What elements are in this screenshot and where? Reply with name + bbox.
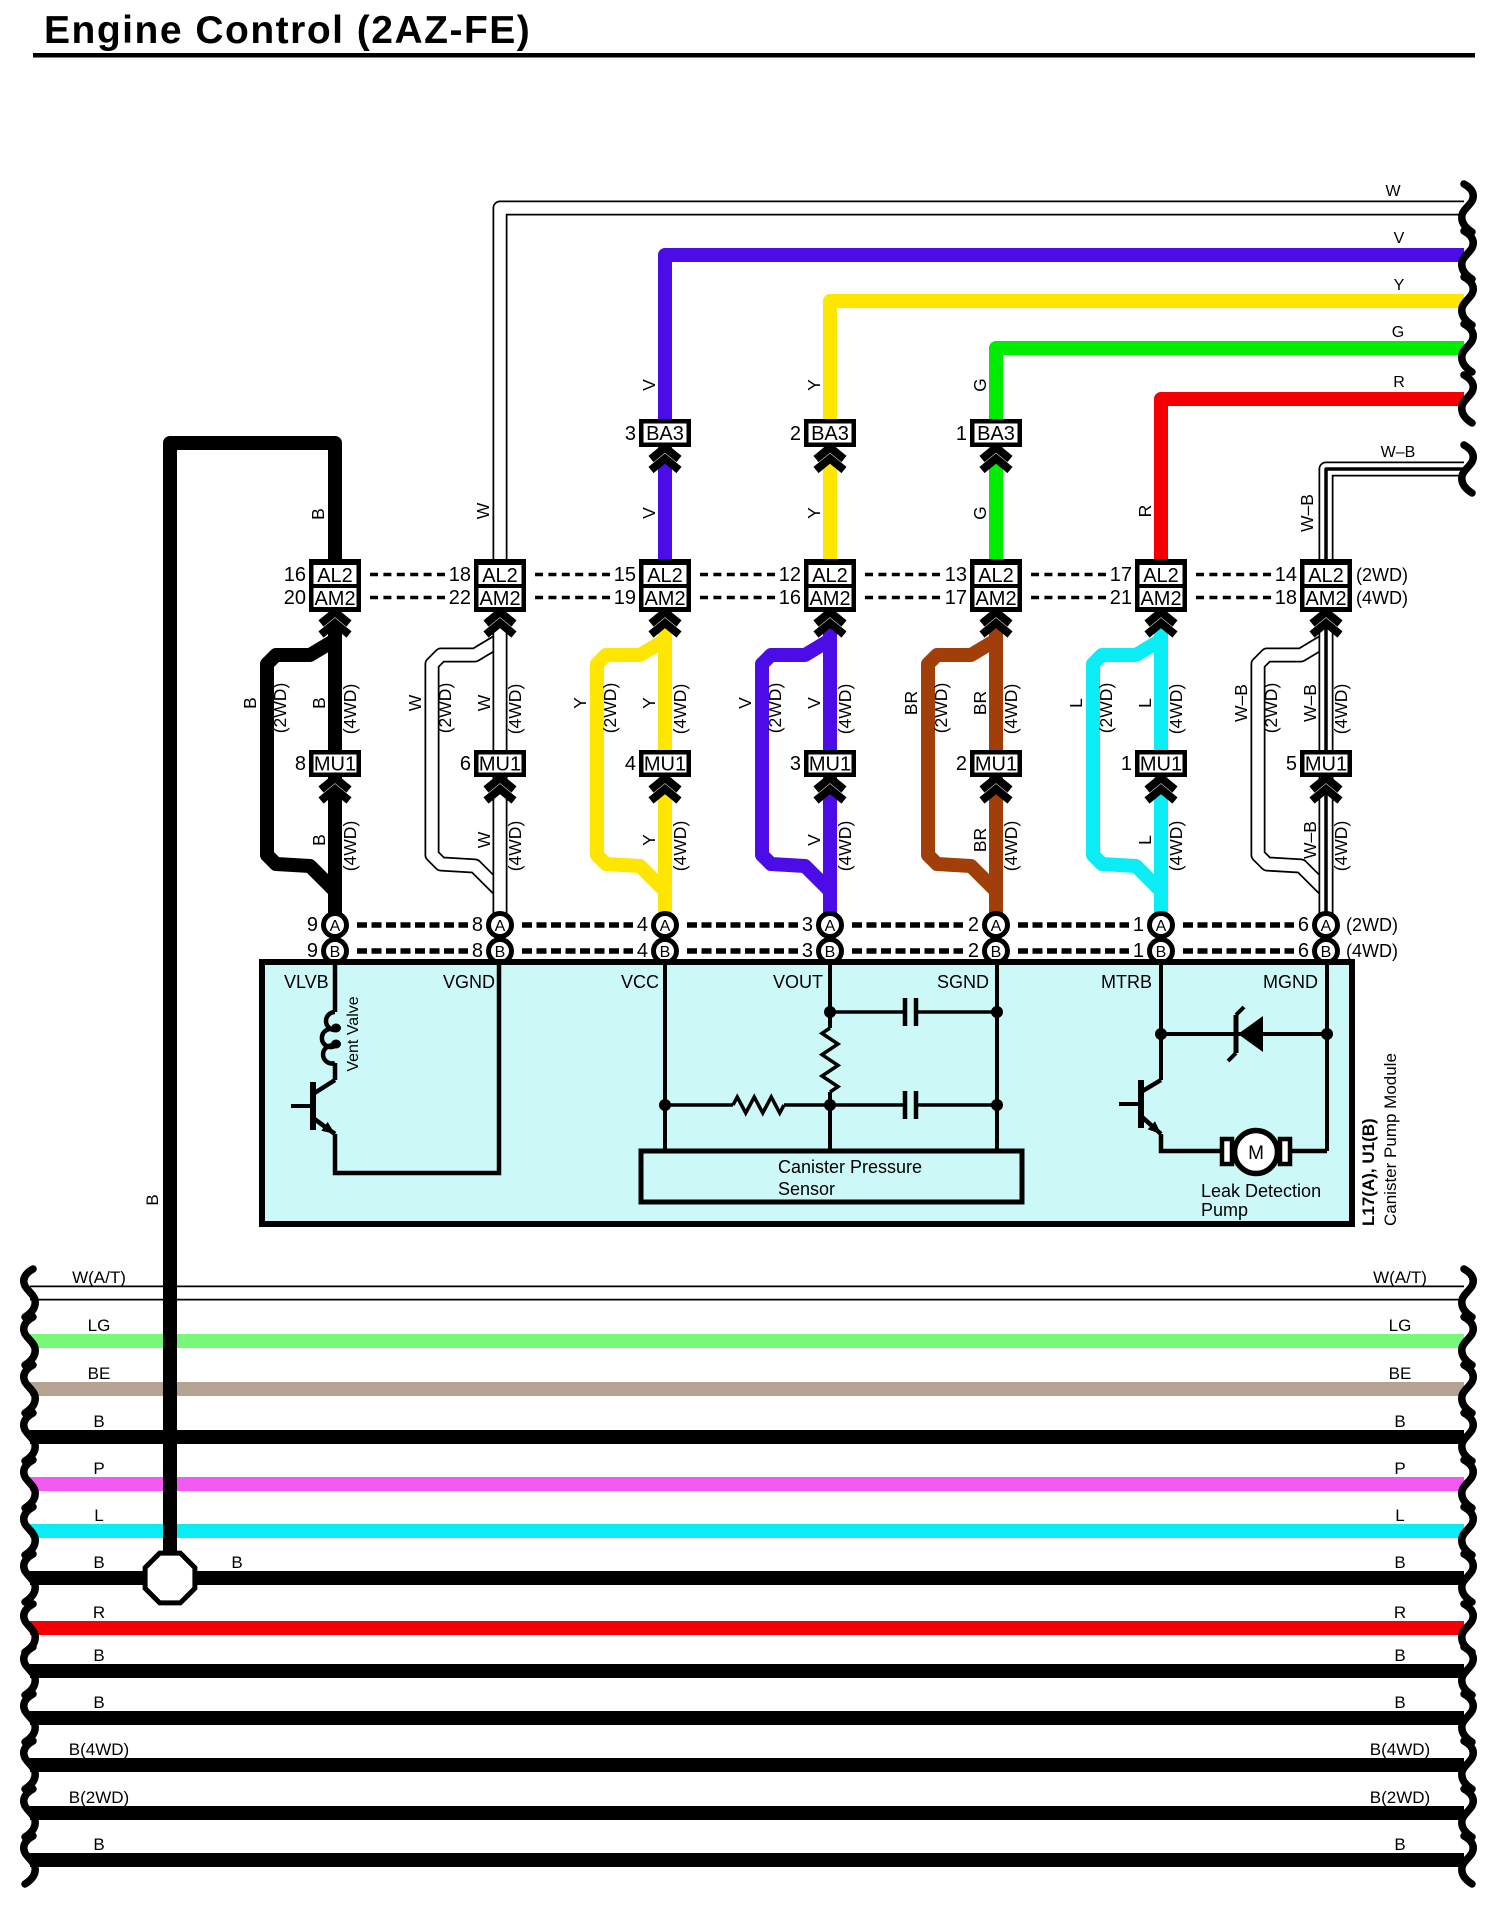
- svg-text:(4WD): (4WD): [1331, 821, 1351, 872]
- continuation P left: [24, 1460, 35, 1508]
- continuation BE left: [24, 1365, 35, 1413]
- label W–B (4WD) col7 lower: [1300, 821, 1351, 872]
- continuation W(A/T) right: [1462, 1269, 1473, 1317]
- junction octagon B: [145, 1553, 195, 1603]
- label LG left: [88, 1316, 111, 1335]
- svg-text:2: 2: [956, 753, 967, 775]
- svg-text:W: W: [473, 502, 493, 519]
- continuation mark G right: [1462, 324, 1473, 372]
- svg-text:AM2: AM2: [314, 588, 355, 610]
- wire B bus: [30, 1571, 1464, 1585]
- node A/B col7: [1298, 914, 1338, 963]
- svg-text:B: B: [231, 1553, 242, 1572]
- svg-text:VLVB: VLVB: [284, 972, 329, 992]
- dashed link AL2 col2-col3: [535, 575, 610, 598]
- label LG right: [1389, 1316, 1412, 1335]
- svg-text:(2WD): (2WD): [435, 683, 455, 734]
- label R col6: [1135, 505, 1155, 518]
- chevron below AM2 col4: [816, 612, 844, 635]
- svg-text:AL2: AL2: [317, 565, 353, 587]
- label W(A/T) left: [72, 1268, 126, 1287]
- wire B main col1: [328, 627, 342, 914]
- junction VOUT lower: [824, 1099, 836, 1111]
- label B (4WD) col1 lower: [309, 821, 360, 872]
- chevron below MU1 col6: [1147, 778, 1175, 801]
- continuation B left: [24, 1694, 35, 1742]
- label W (2WD) col2: [405, 683, 455, 734]
- svg-text:VOUT: VOUT: [773, 972, 823, 992]
- label P right: [1394, 1459, 1405, 1478]
- svg-text:W: W: [474, 831, 494, 848]
- node A/B col3: [637, 914, 677, 963]
- svg-text:B: B: [93, 1646, 104, 1665]
- wire B 2WD branch col1: [267, 640, 335, 891]
- inductor Vent Valve coil: [322, 1012, 341, 1064]
- label Leak Detection Pump: [1201, 1181, 1321, 1220]
- svg-text:R: R: [1394, 1603, 1406, 1622]
- svg-text:L: L: [1395, 1506, 1404, 1525]
- svg-text:B: B: [1156, 944, 1167, 961]
- wire B bus: [30, 1853, 1464, 1867]
- label W–B (2WD) col7: [1231, 683, 1281, 734]
- svg-text:A: A: [660, 918, 671, 935]
- connector MU1 col2: [460, 750, 526, 777]
- svg-text:Y: Y: [1394, 277, 1405, 294]
- svg-text:R: R: [93, 1603, 105, 1622]
- svg-text:SGND: SGND: [937, 972, 989, 992]
- wire BR main col5: [989, 627, 1003, 914]
- label BE left: [88, 1364, 111, 1383]
- continuation W(A/T) left: [24, 1269, 35, 1317]
- svg-text:1: 1: [1133, 914, 1144, 936]
- label B (4WD) col1 upper: [309, 684, 360, 735]
- svg-text:(2WD): (2WD): [931, 683, 951, 734]
- capacitor C1 row: [830, 998, 997, 1026]
- chevron below MU1 col2: [486, 778, 514, 801]
- svg-text:1: 1: [956, 423, 967, 445]
- wire G top: [996, 348, 1464, 600]
- wire B long vertical: [163, 443, 177, 1578]
- label R: [1393, 374, 1405, 391]
- wire diode row: [1161, 1032, 1327, 1036]
- svg-text:B: B: [1394, 1693, 1405, 1712]
- svg-text:(4WD): (4WD): [835, 684, 855, 735]
- chevron below AM2 col3: [651, 612, 679, 635]
- title: [44, 9, 531, 52]
- svg-text:P: P: [93, 1459, 104, 1478]
- label L (4WD) col6 upper: [1135, 684, 1186, 735]
- svg-text:B: B: [93, 1412, 104, 1431]
- wire VLVB: [333, 965, 338, 1012]
- label W-B col7: [1297, 494, 1317, 532]
- svg-text:A: A: [330, 918, 341, 935]
- svg-text:B: B: [309, 697, 329, 709]
- label B(4WD) left: [69, 1740, 129, 1759]
- svg-text:MU1: MU1: [479, 754, 521, 776]
- svg-text:M: M: [1248, 1143, 1264, 1164]
- wire W-B top: [1326, 469, 1464, 600]
- chevron below AM2 col2: [486, 612, 514, 635]
- svg-text:6: 6: [460, 753, 471, 775]
- connector AL2/AM2 col1: [284, 559, 361, 612]
- svg-text:(4WD): (4WD): [505, 821, 525, 872]
- svg-text:AL2: AL2: [812, 565, 848, 587]
- dashed link AL2 col5-col6: [1031, 575, 1106, 598]
- chevron below BA3 col3: [651, 448, 679, 471]
- label Canister Pump Module: [1381, 1053, 1400, 1226]
- label Vent Valve: [345, 996, 362, 1071]
- svg-text:B: B: [93, 1553, 104, 1572]
- svg-text:1: 1: [1133, 940, 1144, 962]
- svg-text:2: 2: [968, 914, 979, 936]
- svg-text:Y: Y: [804, 379, 824, 391]
- svg-text:20: 20: [284, 587, 306, 609]
- svg-text:Sensor: Sensor: [778, 1179, 835, 1199]
- continuation B left: [24, 1413, 35, 1461]
- svg-text:V: V: [639, 507, 659, 519]
- svg-text:Y: Y: [639, 834, 659, 846]
- svg-text:A: A: [1321, 918, 1332, 935]
- connector AL2/AM2 col5: [945, 559, 1022, 612]
- label G col5 above BA3: [970, 378, 990, 392]
- svg-text:(4WD): (4WD): [1001, 821, 1021, 872]
- svg-text:V: V: [1394, 230, 1405, 247]
- pin label MTRB: [1101, 972, 1152, 992]
- label Y: [1394, 277, 1405, 294]
- wire V 2WD branch col4: [762, 640, 830, 891]
- svg-text:R: R: [1135, 505, 1155, 518]
- continuation mark V right: [1462, 231, 1473, 279]
- continuation R left: [24, 1604, 35, 1652]
- continuation mark Y right: [1462, 277, 1473, 325]
- label Y col4 above BA3: [804, 379, 824, 391]
- svg-text:B: B: [991, 944, 1002, 961]
- svg-text:(4WD): (4WD): [1346, 941, 1398, 961]
- svg-text:MU1: MU1: [644, 754, 686, 776]
- pin label VGND: [443, 972, 495, 992]
- label B at octagon: [231, 1553, 242, 1572]
- label P left: [93, 1459, 104, 1478]
- svg-text:Vent Valve: Vent Valve: [345, 996, 362, 1071]
- label Y col4 below BA3: [804, 507, 824, 519]
- svg-text:15: 15: [614, 564, 636, 586]
- svg-text:Y: Y: [639, 697, 659, 709]
- continuation P right: [1462, 1460, 1473, 1508]
- svg-text:VGND: VGND: [443, 972, 495, 992]
- label B right: [1394, 1646, 1405, 1665]
- label B left: [93, 1412, 104, 1431]
- junction MTRB: [1155, 1028, 1167, 1040]
- svg-text:B: B: [143, 1194, 162, 1205]
- label Y (2WD) col3: [570, 683, 620, 734]
- svg-text:5: 5: [1286, 753, 1297, 775]
- svg-text:BR: BR: [970, 828, 990, 852]
- svg-text:B: B: [660, 944, 671, 961]
- chevron below BA3 col4: [816, 448, 844, 471]
- label W–B (4WD) col7 upper: [1300, 684, 1351, 735]
- label L (4WD) col6 lower: [1135, 821, 1186, 872]
- label W col2: [473, 502, 493, 519]
- svg-text:17: 17: [945, 587, 967, 609]
- wire P bus: [30, 1477, 1464, 1491]
- label BR (2WD) col5: [901, 683, 951, 734]
- wire BR 2WD branch col5: [928, 640, 996, 891]
- wire VOUT upper: [828, 965, 832, 1028]
- svg-text:(2WD): (2WD): [1096, 683, 1116, 734]
- svg-text:B: B: [825, 944, 836, 961]
- wire coil to transistor: [333, 1063, 338, 1080]
- svg-text:(4WD): (4WD): [670, 684, 690, 735]
- svg-text:2: 2: [968, 940, 979, 962]
- svg-text:4: 4: [637, 940, 648, 962]
- label B col1: [308, 508, 328, 520]
- wire R top: [1161, 399, 1464, 600]
- label L left: [94, 1506, 103, 1525]
- svg-text:3: 3: [802, 914, 813, 936]
- svg-text:Engine Control (2AZ-FE): Engine Control (2AZ-FE): [44, 9, 531, 52]
- svg-text:(2WD): (2WD): [1261, 683, 1281, 734]
- svg-text:L: L: [94, 1506, 103, 1525]
- svg-text:B: B: [1394, 1835, 1405, 1854]
- label B right: [1394, 1693, 1405, 1712]
- dashed link AL2 col3-col4: [700, 575, 775, 598]
- dashed link circles col3-col4: [687, 925, 798, 951]
- svg-text:L: L: [1066, 698, 1086, 708]
- label Canister Pressure Sensor: [778, 1157, 922, 1199]
- chevron below AM2 col7: [1312, 612, 1340, 635]
- svg-text:(4WD): (4WD): [1166, 821, 1186, 872]
- svg-text:P: P: [1394, 1459, 1405, 1478]
- continuation B right: [1462, 1554, 1473, 1602]
- continuation LG left: [24, 1317, 35, 1365]
- svg-text:B: B: [308, 508, 328, 520]
- dashed link circles col6-col7: [1183, 925, 1294, 951]
- svg-text:A: A: [1156, 918, 1167, 935]
- motor M leak detection pump: [1222, 1131, 1290, 1174]
- svg-text:MU1: MU1: [809, 754, 851, 776]
- title underline: [33, 53, 1475, 58]
- chevron below MU1 col1: [321, 778, 349, 801]
- svg-text:VCC: VCC: [621, 972, 659, 992]
- svg-text:B: B: [93, 1835, 104, 1854]
- label V col3 above BA3: [639, 379, 659, 391]
- svg-text:(2WD): (2WD): [600, 683, 620, 734]
- svg-text:MU1: MU1: [975, 754, 1017, 776]
- svg-text:9: 9: [307, 914, 318, 936]
- resistor R2 vertical: [822, 1028, 838, 1092]
- svg-text:B(2WD): B(2WD): [69, 1788, 129, 1807]
- wire SGND: [995, 965, 999, 1151]
- continuation B left: [24, 1554, 35, 1602]
- svg-text:W–B: W–B: [1300, 684, 1320, 722]
- svg-text:BR: BR: [901, 691, 921, 715]
- svg-text:14: 14: [1275, 564, 1297, 586]
- node A/B col1: [307, 914, 347, 963]
- svg-text:(4WD): (4WD): [1166, 684, 1186, 735]
- svg-text:B: B: [93, 1693, 104, 1712]
- label R left: [93, 1603, 105, 1622]
- svg-text:W–B: W–B: [1231, 684, 1251, 722]
- junction VCC: [659, 1099, 671, 1111]
- svg-text:V: V: [804, 697, 824, 709]
- wire L bus: [30, 1524, 1464, 1538]
- svg-text:Y: Y: [570, 697, 590, 709]
- svg-text:21: 21: [1110, 587, 1132, 609]
- svg-text:19: 19: [614, 587, 636, 609]
- svg-text:B(2WD): B(2WD): [1370, 1788, 1430, 1807]
- wire VGND return: [335, 965, 499, 1173]
- dashed link circles col1-col2: [357, 925, 468, 951]
- label B(2WD) left: [69, 1788, 129, 1807]
- continuation B right: [1462, 1694, 1473, 1742]
- continuation B(4WD) right: [1462, 1741, 1473, 1789]
- svg-text:B: B: [1394, 1553, 1405, 1572]
- junction VOUT upper: [824, 1006, 836, 1018]
- chevron below MU1 col5: [982, 778, 1010, 801]
- svg-text:B: B: [1394, 1412, 1405, 1431]
- svg-text:Pump: Pump: [1201, 1200, 1248, 1220]
- connector AL2/AM2 col6: [1110, 559, 1187, 612]
- connector MU1 col6: [1121, 750, 1187, 777]
- svg-text:W: W: [405, 694, 425, 711]
- svg-text:AL2: AL2: [482, 565, 518, 587]
- label V (4WD) col4 lower: [804, 821, 855, 872]
- label L17(A) U1(B): [1359, 1118, 1378, 1226]
- wire W–B 2WD branch col7: [1258, 640, 1326, 891]
- label B(2WD) right: [1370, 1788, 1430, 1807]
- chevron below AM2 col6: [1147, 612, 1175, 635]
- svg-text:22: 22: [449, 587, 471, 609]
- svg-text:6: 6: [1298, 940, 1309, 962]
- label B left: [93, 1835, 104, 1854]
- chevron below MU1 col3: [651, 778, 679, 801]
- wire B top horizontal: [170, 443, 335, 600]
- label W-B: [1381, 444, 1416, 461]
- svg-text:MU1: MU1: [1305, 754, 1347, 776]
- zener diode D1: [1228, 1007, 1263, 1061]
- svg-text:4: 4: [625, 753, 636, 775]
- wire V main col4: [823, 627, 837, 914]
- svg-text:AM2: AM2: [1305, 588, 1346, 610]
- connector MU1 col4: [790, 750, 856, 777]
- svg-text:W(A/T): W(A/T): [72, 1268, 126, 1287]
- svg-text:16: 16: [779, 587, 801, 609]
- svg-text:LG: LG: [88, 1316, 111, 1335]
- connector AL2/AM2 col3: [614, 559, 691, 612]
- pin label VLVB: [284, 972, 329, 992]
- svg-text:V: V: [804, 834, 824, 846]
- svg-text:LG: LG: [1389, 1316, 1412, 1335]
- label B right: [1394, 1553, 1405, 1572]
- wire B(2WD) bus: [30, 1806, 1464, 1820]
- svg-text:W(A/T): W(A/T): [1373, 1268, 1427, 1287]
- svg-text:8: 8: [472, 914, 483, 936]
- wire Y top: [830, 301, 1464, 600]
- wire B(4WD) bus: [30, 1758, 1464, 1772]
- svg-text:AM2: AM2: [644, 588, 685, 610]
- label Y (4WD) col3 upper: [639, 684, 690, 735]
- wire MTRB: [1159, 965, 1163, 1080]
- svg-text:Leak Detection: Leak Detection: [1201, 1181, 1321, 1201]
- wire R bus: [30, 1621, 1464, 1635]
- label L (2WD) col6: [1066, 683, 1116, 734]
- svg-text:G: G: [1392, 324, 1404, 341]
- dashed link AL2 col6-col7: [1196, 575, 1271, 598]
- svg-text:W–B: W–B: [1297, 494, 1317, 532]
- svg-text:3: 3: [625, 423, 636, 445]
- svg-text:AM2: AM2: [1140, 588, 1181, 610]
- transistor Q1 vent valve driver: [291, 1080, 335, 1134]
- continuation B left: [24, 1647, 35, 1695]
- wire LG bus: [30, 1334, 1464, 1348]
- chevron below BA3 col5: [982, 448, 1010, 471]
- wire Q2 emitter to motor: [1161, 1134, 1222, 1151]
- label W: [1385, 183, 1401, 200]
- svg-text:L17(A), U1(B): L17(A), U1(B): [1359, 1118, 1378, 1226]
- node A/B col4: [802, 914, 842, 963]
- pin label SGND: [937, 972, 989, 992]
- svg-text:B: B: [240, 697, 260, 709]
- svg-text:A: A: [825, 918, 836, 935]
- svg-text:MU1: MU1: [314, 754, 356, 776]
- continuation LG right: [1462, 1317, 1473, 1365]
- label B left: [93, 1553, 104, 1572]
- wire B bus: [30, 1711, 1464, 1725]
- svg-text:(4WD): (4WD): [340, 821, 360, 872]
- svg-text:AL2: AL2: [978, 565, 1014, 587]
- wire VCC: [663, 965, 667, 1151]
- connector BA3 pin 3: [625, 419, 691, 447]
- wire W(A/T) bus: [30, 1286, 1464, 1301]
- svg-text:AL2: AL2: [1143, 565, 1179, 587]
- dashed link circles col5-col6: [1018, 925, 1129, 951]
- svg-text:Canister Pressure: Canister Pressure: [778, 1157, 922, 1177]
- svg-text:MTRB: MTRB: [1101, 972, 1152, 992]
- svg-text:AM2: AM2: [479, 588, 520, 610]
- continuation B right: [1462, 1413, 1473, 1461]
- svg-text:V: V: [735, 697, 755, 709]
- wire L 2WD branch col6: [1093, 640, 1161, 891]
- connector MU1 col3: [625, 750, 691, 777]
- svg-text:2: 2: [790, 423, 801, 445]
- chevron below MU1 col4: [816, 778, 844, 801]
- wire VOUT lower: [828, 1092, 832, 1151]
- svg-text:B: B: [1321, 944, 1332, 961]
- label BE right: [1389, 1364, 1412, 1383]
- chevron below MU1 col7: [1312, 778, 1340, 801]
- label G: [1392, 324, 1404, 341]
- svg-text:B: B: [1394, 1646, 1405, 1665]
- label B on vertical wire: [143, 1194, 162, 1205]
- dashed link circles col4-col5: [852, 925, 963, 951]
- continuation BE right: [1462, 1365, 1473, 1413]
- wire V top: [665, 255, 1464, 600]
- svg-text:A: A: [991, 918, 1002, 935]
- label W(A/T) right: [1373, 1268, 1427, 1287]
- label B (2WD) col1: [240, 683, 290, 734]
- label B right: [1394, 1412, 1405, 1431]
- pin label MGND: [1263, 972, 1318, 992]
- label G col5 below BA3: [970, 506, 990, 520]
- svg-text:8: 8: [472, 940, 483, 962]
- svg-text:AM2: AM2: [809, 588, 850, 610]
- svg-text:18: 18: [449, 564, 471, 586]
- svg-text:G: G: [970, 378, 990, 392]
- dashed link AL2 col1-col2: [370, 575, 445, 598]
- svg-text:1: 1: [1121, 753, 1132, 775]
- wire W top: [500, 208, 1464, 600]
- svg-text:(2WD): (2WD): [1356, 565, 1408, 585]
